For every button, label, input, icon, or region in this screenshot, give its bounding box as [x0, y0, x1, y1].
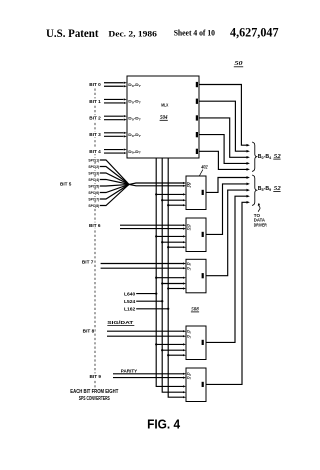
svg-text:BIT 3: BIT 3	[89, 132, 101, 137]
svg-text:SPC(3): SPC(3)	[88, 171, 99, 175]
svg-text:Dec. 2, 1986: Dec. 2, 1986	[108, 30, 156, 39]
svg-text:FIG. 4: FIG. 4	[147, 418, 180, 432]
svg-text:504: 504	[160, 114, 168, 121]
svg-text:BIT 7: BIT 7	[82, 260, 94, 265]
svg-text:BIT 0: BIT 0	[89, 82, 101, 87]
svg-text:DRIVER: DRIVER	[254, 222, 268, 227]
svg-text:SPC(4): SPC(4)	[88, 178, 99, 182]
svg-text:BIT 2: BIT 2	[89, 116, 101, 121]
svg-text:BIT 8: BIT 8	[83, 329, 95, 334]
svg-text:BIT 1: BIT 1	[89, 99, 101, 104]
svg-text:L640: L640	[124, 291, 136, 296]
svg-text:402: 402	[200, 165, 208, 170]
svg-text:Sheet 4 of 10: Sheet 4 of 10	[174, 29, 215, 38]
svg-text:BIT 9: BIT 9	[90, 374, 102, 379]
svg-text:L162: L162	[124, 307, 136, 312]
svg-text:EACH BIT FROM EIGHT: EACH BIT FROM EIGHT	[70, 389, 119, 395]
svg-text:L524: L524	[124, 299, 136, 304]
svg-text:U.S. Patent: U.S. Patent	[46, 28, 99, 40]
svg-text:SPC(8): SPC(8)	[88, 204, 99, 208]
svg-text:SPS CONVERTERS: SPS CONVERTERS	[79, 396, 110, 402]
svg-text:50: 50	[235, 60, 244, 67]
svg-text:SPC(2): SPC(2)	[88, 165, 99, 169]
svg-text:4,627,047: 4,627,047	[230, 26, 279, 40]
svg-text:SIG/DAT: SIG/DAT	[107, 320, 134, 325]
svg-text:BIT 6: BIT 6	[89, 223, 101, 228]
svg-text:BIT 4: BIT 4	[89, 149, 101, 154]
svg-text:MLX: MLX	[161, 102, 169, 107]
svg-text:SPC(1): SPC(1)	[88, 158, 99, 162]
svg-text:PARITY: PARITY	[121, 369, 138, 374]
svg-text:SPC(7): SPC(7)	[88, 197, 99, 201]
svg-text:SPC(6): SPC(6)	[88, 191, 99, 195]
svg-text:SPC(5): SPC(5)	[88, 184, 99, 188]
svg-text:BIT 5: BIT 5	[60, 181, 72, 186]
